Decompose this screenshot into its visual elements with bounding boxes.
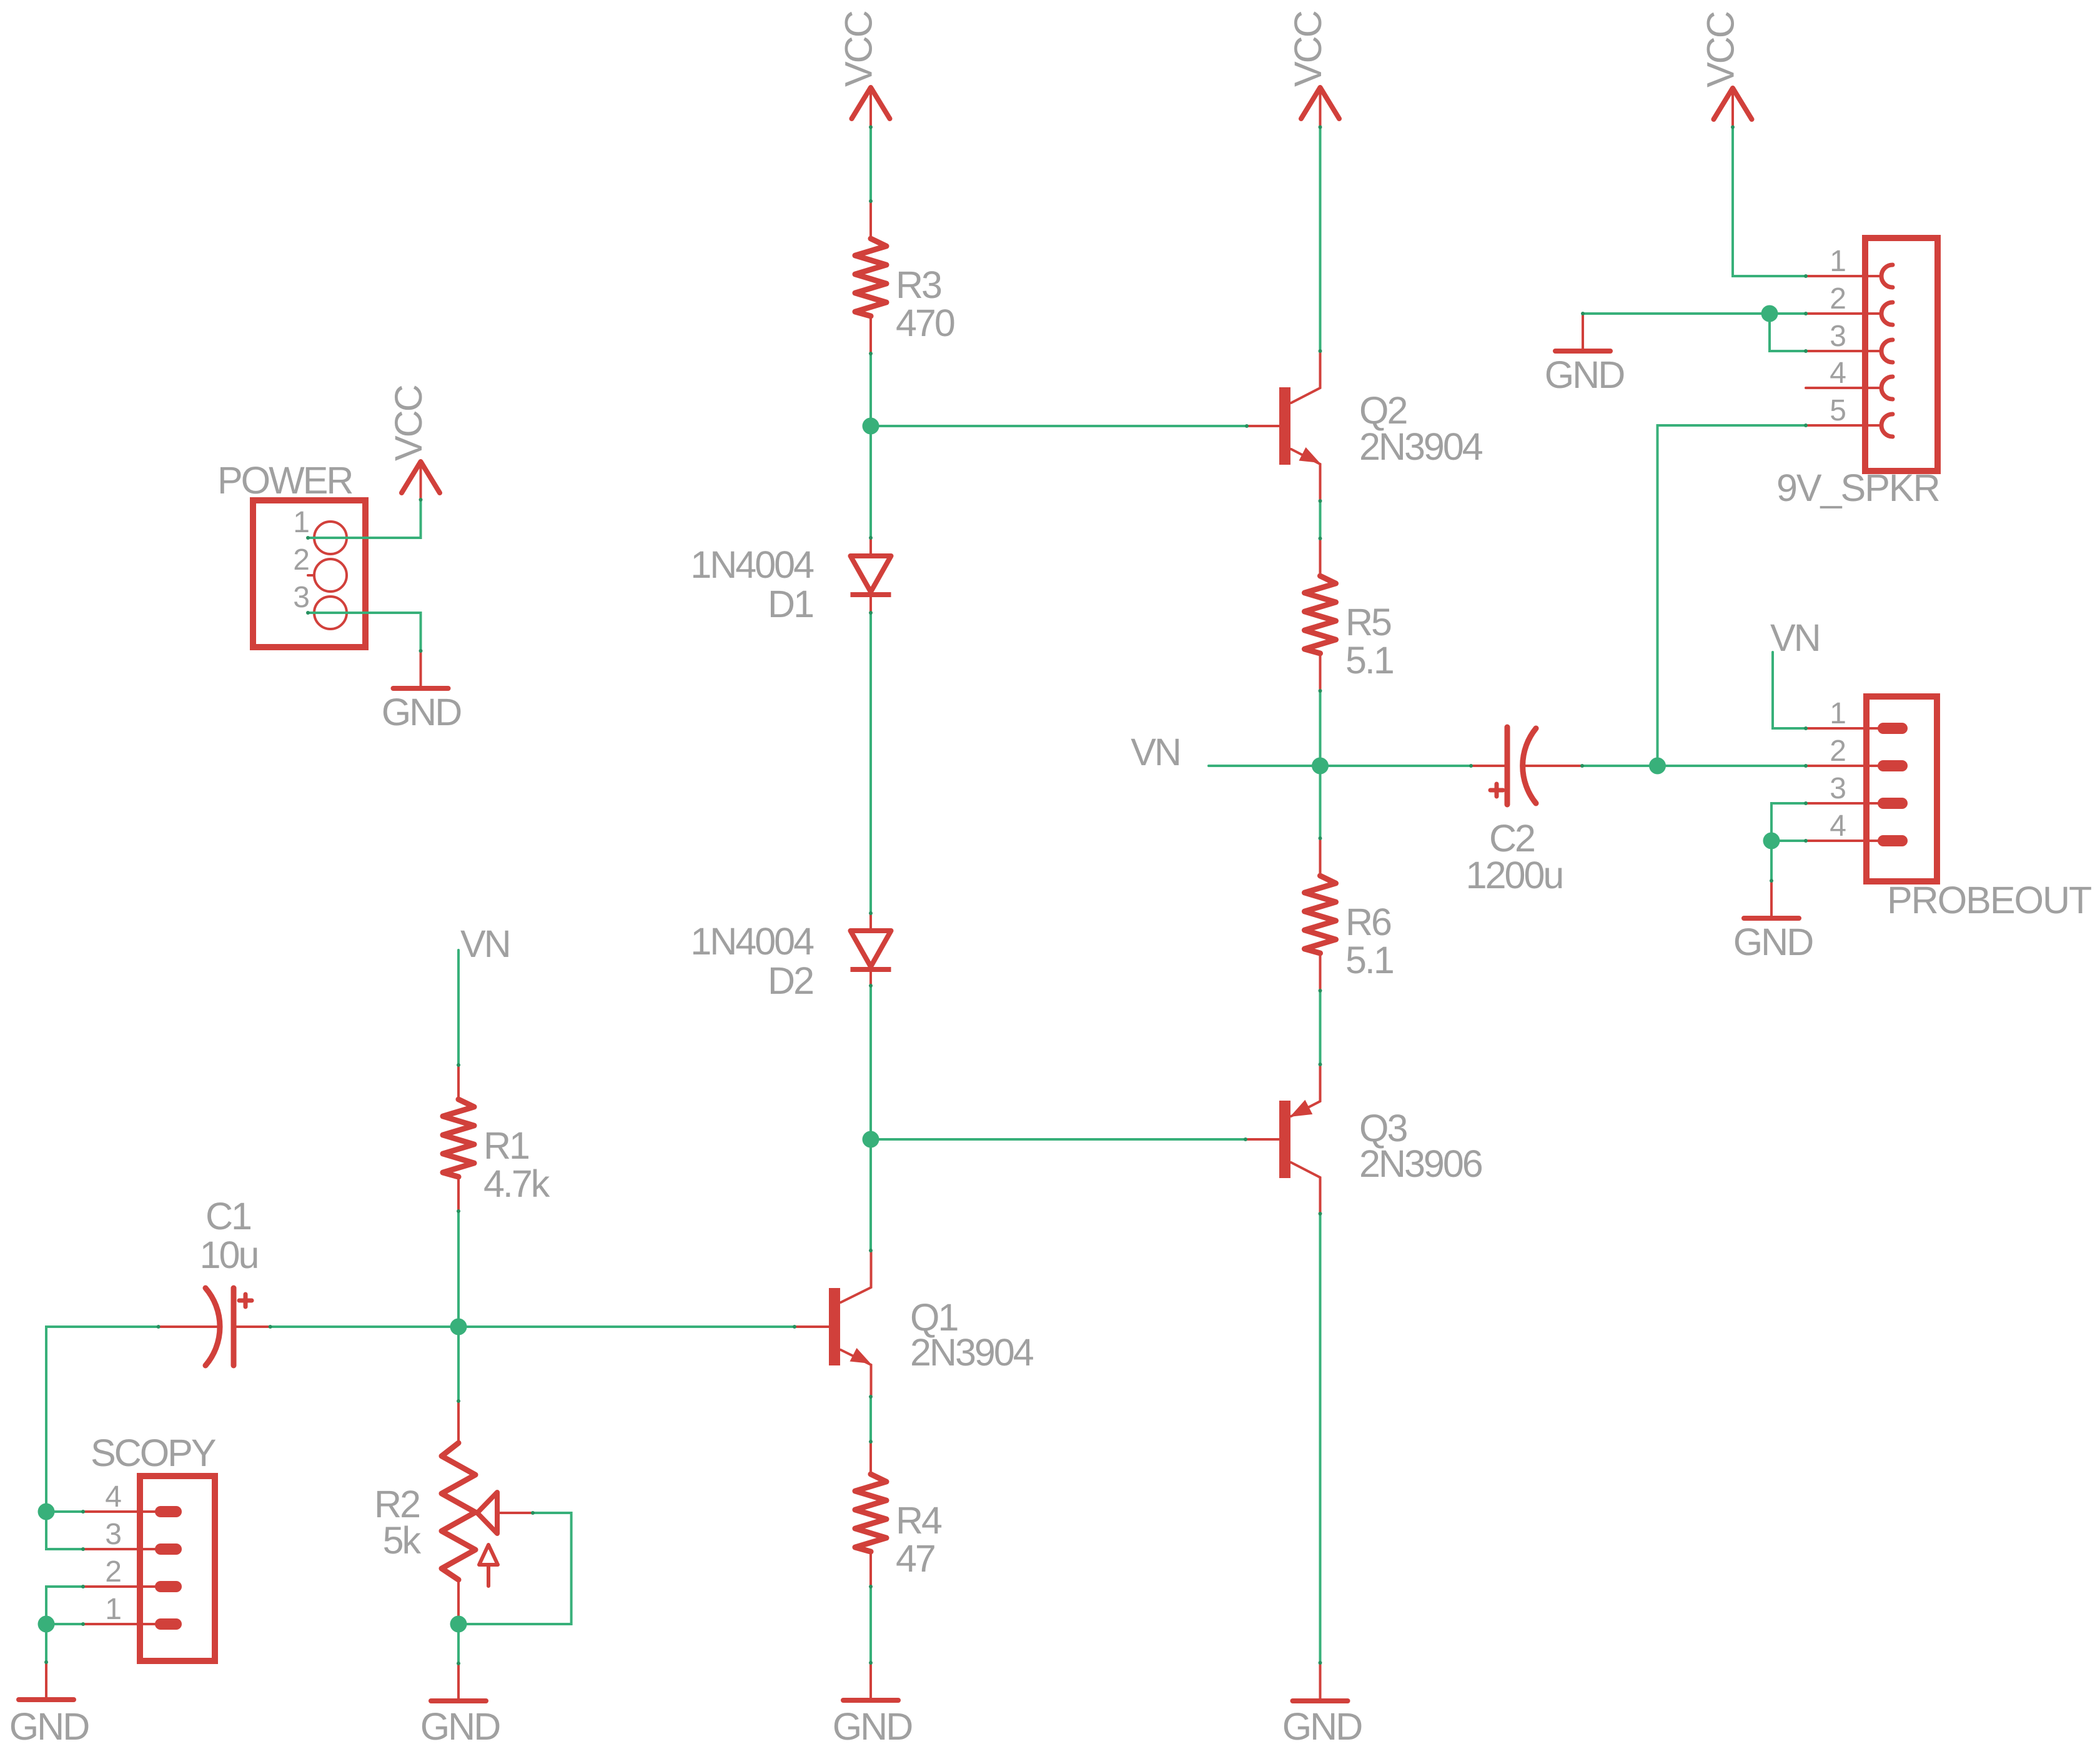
node junction (9V_SPKR pin2/pin3) xyxy=(1761,305,1778,322)
node B junction xyxy=(863,1131,879,1148)
svg-text:4.7k: 4.7k xyxy=(483,1162,550,1205)
svg-text:2N3906: 2N3906 xyxy=(1359,1142,1482,1185)
svg-text:VN: VN xyxy=(1770,617,1820,659)
svg-text:5.1: 5.1 xyxy=(1345,639,1393,681)
ground GND (POWER) xyxy=(394,651,448,688)
svg-text:GND: GND xyxy=(1545,354,1625,396)
wire SCOPY pin1 to GND xyxy=(45,1624,47,1662)
connector PROBEOUT xyxy=(1806,696,1937,881)
wire R2 wiper loop xyxy=(458,1513,572,1624)
svg-text:4: 4 xyxy=(1830,810,1846,843)
wire VCC to Q2 collector xyxy=(1319,127,1322,352)
svg-text:R4: R4 xyxy=(896,1499,942,1542)
wire VCC to R3 xyxy=(869,127,872,202)
svg-text:47: 47 xyxy=(896,1537,934,1580)
svg-text:GND: GND xyxy=(382,691,462,733)
ground GND (SCOPY) xyxy=(19,1662,74,1700)
svg-text:2: 2 xyxy=(1830,282,1846,315)
node VN junction xyxy=(1312,758,1329,775)
node junction (PROBEOUT pin4) xyxy=(1763,833,1780,850)
svg-text:2: 2 xyxy=(293,543,310,577)
svg-text:2: 2 xyxy=(1830,735,1846,768)
diode D1 xyxy=(851,538,891,613)
svg-text:5: 5 xyxy=(1830,394,1846,427)
svg-text:2N3904: 2N3904 xyxy=(910,1331,1034,1374)
transistor Q3 2N3906 xyxy=(1246,1064,1320,1214)
wire VN to R1 xyxy=(457,950,460,1065)
svg-text:3: 3 xyxy=(1830,772,1846,805)
svg-text:GND: GND xyxy=(420,1705,500,1748)
wire D1 to D2 xyxy=(869,613,872,913)
svg-text:1: 1 xyxy=(1830,697,1846,730)
connector SCOPY xyxy=(83,1476,215,1661)
wire D2 to node B / Q1 xyxy=(869,986,872,1251)
connector POWER xyxy=(253,500,365,647)
wire VN label stub xyxy=(1209,765,1320,767)
svg-text:D1: D1 xyxy=(768,583,813,625)
svg-text:GND: GND xyxy=(9,1705,89,1748)
wire junction up to 9V_SPKR pin5 xyxy=(1658,425,1806,766)
svg-text:VCC: VCC xyxy=(1287,11,1329,87)
svg-text:VCC: VCC xyxy=(838,11,880,87)
wire junction to 9V_SPKR pin3 xyxy=(1770,314,1806,351)
transistor Q1 2N3904 xyxy=(795,1251,871,1397)
wire SCOPY pin2 xyxy=(46,1587,83,1624)
svg-text:R1: R1 xyxy=(483,1124,528,1167)
ground GND (mid) xyxy=(843,1663,898,1700)
svg-text:2N3904: 2N3904 xyxy=(1359,425,1483,468)
node A junction xyxy=(863,418,879,435)
svg-text:1N4004: 1N4004 xyxy=(690,543,814,586)
svg-text:GND: GND xyxy=(1282,1705,1362,1748)
svg-text:C2: C2 xyxy=(1489,817,1534,860)
wire C1 to node C xyxy=(270,1325,458,1328)
svg-text:5k: 5k xyxy=(383,1519,422,1562)
svg-text:1: 1 xyxy=(105,1593,122,1626)
supply VCC (mid column) xyxy=(852,87,890,127)
svg-text:1: 1 xyxy=(1830,245,1846,278)
transistor Q2 2N3904 xyxy=(1247,351,1320,501)
svg-text:VCC: VCC xyxy=(1700,12,1742,87)
wire R4 to GND xyxy=(869,1587,872,1663)
svg-text:VN: VN xyxy=(1131,731,1180,773)
resistor R3 xyxy=(855,201,886,354)
svg-text:VCC: VCC xyxy=(387,385,430,461)
wire R2 bottom to GND xyxy=(457,1624,460,1663)
node SCOPY pin4 junction xyxy=(38,1504,55,1520)
svg-text:R3: R3 xyxy=(896,264,941,306)
wire SCOPY pin4 to pin3 xyxy=(46,1512,83,1549)
ground GND (PROBEOUT) xyxy=(1744,881,1799,918)
svg-text:POWER: POWER xyxy=(217,459,352,502)
svg-text:1200u: 1200u xyxy=(1466,854,1563,896)
svg-text:4: 4 xyxy=(105,1480,122,1514)
potentiometer R2 5k xyxy=(442,1401,533,1624)
svg-text:C1: C1 xyxy=(206,1195,250,1237)
wire node C to Q1 base xyxy=(458,1325,795,1328)
svg-text:D2: D2 xyxy=(768,959,813,1002)
svg-text:2: 2 xyxy=(105,1555,122,1588)
resistor R6 xyxy=(1305,838,1336,991)
supply VCC (Q2 column) xyxy=(1301,87,1339,127)
wire Q3 collector to GND xyxy=(1319,1214,1322,1663)
wire Q2 emitter to R5 xyxy=(1319,501,1322,538)
wire Q1 emitter to R4 xyxy=(869,1397,872,1442)
node C junction xyxy=(450,1319,467,1335)
svg-text:1: 1 xyxy=(293,506,310,539)
supply VCC (POWER) xyxy=(402,462,440,500)
ground GND (R2) xyxy=(431,1663,486,1701)
wire R5 to VN node to R6 xyxy=(1319,691,1322,838)
node SCOPY pin1 junction xyxy=(38,1616,55,1633)
wire POWER pin3 to GND xyxy=(308,613,421,651)
svg-text:9V_SPKR: 9V_SPKR xyxy=(1776,467,1939,509)
wire VN to PROBEOUT pin1 xyxy=(1773,652,1806,728)
wire-to-pin connection dots xyxy=(44,126,1808,1666)
ground GND (9V_SPKR) xyxy=(1555,314,1610,351)
wire VCC to 9V_SPKR pin1 xyxy=(1733,127,1806,277)
wire SCOPY pin1 xyxy=(46,1623,83,1625)
svg-text:SCOPY: SCOPY xyxy=(91,1432,216,1474)
wire R1 to node C xyxy=(457,1211,460,1327)
resistor R4 xyxy=(855,1442,886,1587)
svg-text:VN: VN xyxy=(460,923,510,965)
svg-text:4: 4 xyxy=(1830,357,1846,390)
wire node B to Q3 base xyxy=(871,1138,1246,1141)
wire node A to Q2 base xyxy=(871,425,1247,427)
svg-text:R6: R6 xyxy=(1345,901,1391,943)
svg-text:3: 3 xyxy=(105,1518,122,1551)
svg-text:GND: GND xyxy=(833,1705,913,1748)
svg-text:3: 3 xyxy=(1830,320,1846,353)
svg-text:5.1: 5.1 xyxy=(1345,939,1393,981)
connector 9V_SPKR xyxy=(1806,238,1938,471)
svg-text:PROBEOUT: PROBEOUT xyxy=(1887,879,2091,921)
wire junction to PROBEOUT pin2 xyxy=(1658,765,1806,767)
wire R6 to Q3 emitter xyxy=(1319,991,1322,1064)
resistor R5 xyxy=(1305,538,1336,691)
svg-text:1N4004: 1N4004 xyxy=(690,920,814,963)
capacitor C1 10u xyxy=(159,1288,270,1365)
svg-text:470: 470 xyxy=(896,302,954,344)
wire POWER pin1 to VCC xyxy=(308,500,421,538)
svg-text:10u: 10u xyxy=(200,1234,258,1276)
wire PROBEOUT pin3 to pin4 node xyxy=(1771,803,1806,841)
svg-text:3: 3 xyxy=(293,581,310,614)
wire SCOPY pin4 xyxy=(46,1510,83,1513)
wire C2 to PROBEOUT junction xyxy=(1582,765,1658,767)
supply VCC (right) xyxy=(1714,88,1752,127)
node R2 bottom junction xyxy=(450,1616,467,1633)
svg-text:GND: GND xyxy=(1733,921,1813,963)
wire GND to 9V_SPKR pin2 xyxy=(1583,312,1806,315)
wire VN node to C2 xyxy=(1320,765,1472,767)
wire R3 to node A / D1 xyxy=(869,354,872,538)
svg-text:R5: R5 xyxy=(1345,601,1391,643)
capacitor C2 1200u xyxy=(1471,727,1582,805)
ground GND (Q3) xyxy=(1293,1663,1348,1701)
wire node C to R2 xyxy=(457,1327,460,1401)
node junction (C2 / speaker / probeout) xyxy=(1649,758,1666,775)
wire junction to PROBEOUT pin4 xyxy=(1771,840,1806,842)
resistor R1 xyxy=(443,1065,474,1211)
wire junction to GND xyxy=(1770,841,1773,881)
diode D2 xyxy=(851,913,891,986)
wire C1 to SCOPY loop xyxy=(46,1327,159,1512)
